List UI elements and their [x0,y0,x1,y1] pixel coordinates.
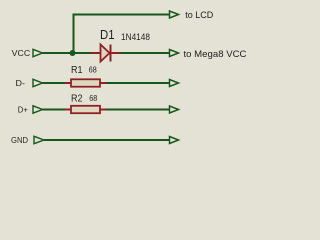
svg-text:GND: GND [11,135,28,145]
svg-text:D-: D- [16,78,26,88]
svg-text:to Mega8 VCC: to Mega8 VCC [184,49,248,59]
svg-text:VCC: VCC [12,48,31,58]
svg-text:to LCD: to LCD [185,10,213,20]
svg-text:1N4148: 1N4148 [121,32,150,43]
svg-text:D+: D+ [18,104,28,114]
svg-text:R1: R1 [71,65,83,76]
svg-text:R2: R2 [71,94,83,105]
svg-text:68: 68 [89,66,97,75]
svg-text:68: 68 [89,94,97,103]
svg-text:D1: D1 [100,27,115,42]
